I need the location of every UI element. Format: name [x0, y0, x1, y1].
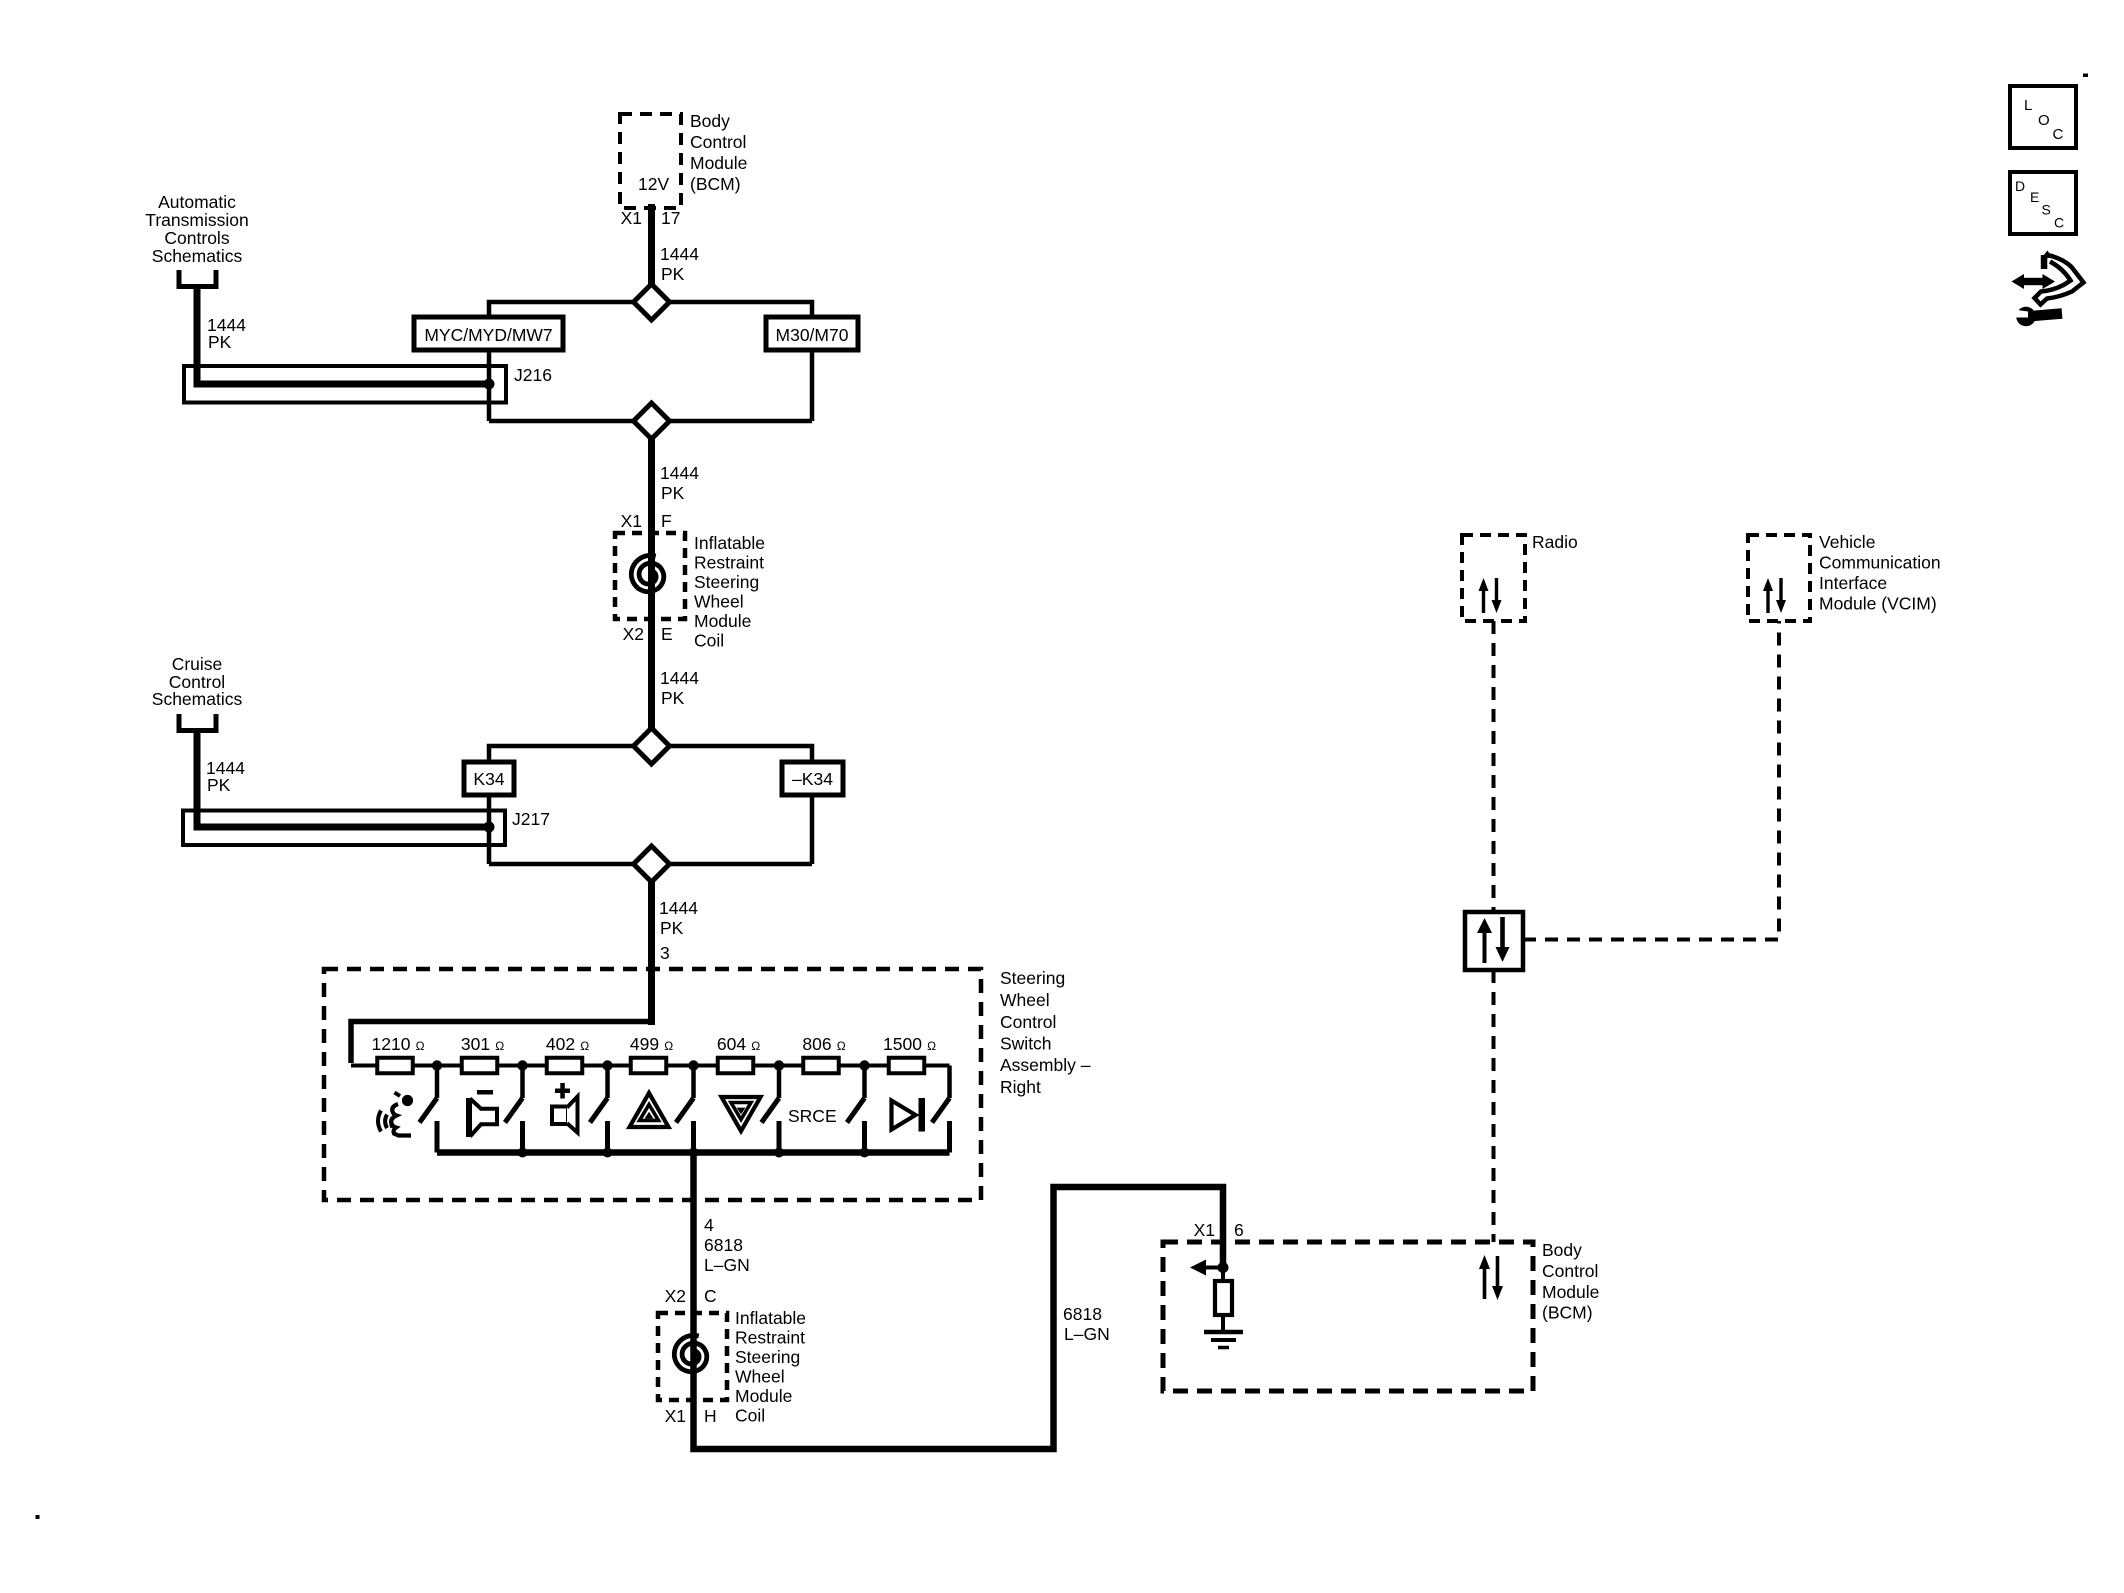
svg-text:E: E: [2030, 189, 2039, 205]
wire 1444 PK: merge diamond to switch assembly pin 3: [648, 882, 655, 1025]
svg-text:C: C: [2054, 215, 2064, 231]
svg-text:402: 402: [546, 1034, 575, 1054]
svg-text:Module: Module: [694, 611, 751, 631]
svg-text:X2: X2: [665, 1286, 686, 1306]
svg-text:Steering: Steering: [694, 572, 759, 592]
connector label X1 | 6: [1194, 1220, 1244, 1240]
label: Body Control Module (BCM): [1542, 1240, 1599, 1323]
svg-text:PK: PK: [660, 918, 684, 938]
svg-text:Control: Control: [1000, 1012, 1056, 1032]
coil spiral symbol (lower clockspring): [674, 1335, 707, 1371]
svg-text:F: F: [661, 511, 672, 531]
svg-text:Ω: Ω: [495, 1039, 504, 1053]
voice recognition switch: [420, 1066, 438, 1153]
svg-text:Wheel: Wheel: [694, 592, 744, 612]
LOC reference box: [2010, 86, 2076, 148]
svg-text:Module: Module: [690, 153, 747, 173]
svg-text:Transmission: Transmission: [145, 210, 248, 230]
svg-text:(BCM): (BCM): [690, 174, 741, 194]
serial data arrows icon inside BCM: [1479, 1255, 1503, 1300]
connector label X1 | F: [621, 511, 672, 531]
svg-text:6818: 6818: [1063, 1304, 1102, 1324]
seek down switch: [762, 1066, 780, 1153]
svg-text:Ω: Ω: [927, 1039, 936, 1053]
svg-text:Module (VCIM): Module (VCIM): [1819, 594, 1937, 614]
svg-text:17: 17: [661, 208, 680, 228]
svg-text:J216: J216: [514, 365, 552, 385]
junction dots on common bus: [518, 1148, 870, 1158]
svg-text:Automatic: Automatic: [158, 192, 236, 212]
svg-text:X1: X1: [1194, 1220, 1215, 1240]
svg-text:C: C: [704, 1286, 717, 1306]
svg-text:–K34: –K34: [792, 769, 833, 789]
coil spiral symbol (clockspring): [631, 555, 664, 591]
svg-text:Right: Right: [1000, 1077, 1041, 1097]
off-page connector bracket (ATC schematics): [179, 270, 216, 287]
wire through lower coil: [690, 1313, 697, 1400]
splice diamond (K34 top): [634, 728, 670, 764]
svg-text:1444: 1444: [660, 244, 699, 264]
wire: MYC branch down through splice pack J216 to merge diamond: [489, 350, 634, 421]
label: Automatic Transmission Controls Schematics: [145, 192, 248, 266]
svg-text:806: 806: [802, 1034, 831, 1054]
wire: splice to option K34: [489, 746, 634, 764]
svg-text:Ω: Ω: [751, 1039, 760, 1053]
svg-text:S: S: [2042, 202, 2051, 218]
svg-text:1210: 1210: [372, 1034, 411, 1054]
wire label 1444 PK: [660, 244, 699, 284]
wire: splice to option -K34: [670, 746, 813, 764]
option box M30/M70: [766, 317, 858, 350]
junction dot at BCM input: [1218, 1262, 1229, 1273]
option box -K34: [782, 762, 843, 795]
svg-text:Module: Module: [1542, 1282, 1599, 1302]
svg-text:604: 604: [717, 1034, 746, 1054]
svg-text:Radio: Radio: [1532, 532, 1578, 552]
volume down switch: [505, 1066, 523, 1153]
component box: Body Control Module (BCM) bottom, dashed: [1163, 1242, 1533, 1391]
svg-text:M30/M70: M30/M70: [776, 325, 849, 345]
component box: Inflatable Restraint Steering Wheel Module Coil (lower), dashed: [658, 1313, 727, 1400]
wire: splice to option M30/M70: [670, 302, 813, 319]
svg-text:6818: 6818: [704, 1235, 743, 1255]
svg-text:L: L: [2024, 97, 2032, 114]
svg-text:Restraint: Restraint: [694, 553, 764, 573]
volume up switch: [590, 1066, 608, 1153]
icon: volume up (speaker plus): [552, 1083, 578, 1133]
svg-text:PK: PK: [661, 264, 685, 284]
label: Steering Wheel Control Switch Assembly - Right: [1000, 968, 1091, 1097]
wire label 1444 PK: [660, 668, 699, 708]
wire 6818 L-GN: bus pin 4 down to lower coil X2-C: [690, 1153, 697, 1314]
splice diamond (top): [634, 284, 670, 320]
connector label X1 | H: [665, 1406, 717, 1426]
svg-text:Steering: Steering: [1000, 968, 1065, 988]
svg-text:PK: PK: [208, 332, 232, 352]
DESC reference box: [2010, 172, 2076, 234]
pull-down resistor inside BCM: [1215, 1268, 1232, 1332]
wire label 1444 PK: [659, 898, 698, 938]
connector label X1 | 17: [621, 208, 681, 228]
svg-text:1444: 1444: [660, 668, 699, 688]
resistor 1210 ohm: [372, 1034, 425, 1073]
component box: Vehicle Communication Interface Module (VCIM), dashed: [1748, 535, 1810, 621]
svg-text:PK: PK: [661, 688, 685, 708]
svg-text:Switch: Switch: [1000, 1034, 1052, 1054]
merge diamond (K34 bottom): [634, 846, 670, 882]
svg-text:Coil: Coil: [694, 631, 724, 651]
wire 1444 PK from Cruise schematics into splice pack J217: [197, 730, 486, 827]
svg-text:Assembly –: Assembly –: [1000, 1055, 1091, 1075]
icon: next track (play triangle with bar): [892, 1098, 926, 1132]
option box K34: [464, 762, 514, 795]
wire: pin 3 feed inside assembly to resistor ladder: [351, 1022, 652, 1064]
svg-text:Inflatable: Inflatable: [694, 533, 765, 553]
component box: Body Control Module (BCM) top, dashed outline: [620, 114, 681, 208]
svg-text:Inflatable: Inflatable: [735, 1308, 806, 1328]
svg-text:D: D: [2015, 178, 2025, 194]
svg-text:Ω: Ω: [580, 1039, 589, 1053]
stray printing dot top right: [2083, 74, 2088, 78]
svg-text:Ω: Ω: [664, 1039, 673, 1053]
svg-text:E: E: [661, 624, 673, 644]
off-page connector bracket (Cruise schematics): [179, 714, 216, 731]
svg-text:Communication: Communication: [1819, 553, 1941, 573]
label: Inflatable Restraint Steering Wheel Module Coil: [694, 533, 765, 651]
icon: seek/preset down (nested inverted triangles): [722, 1097, 761, 1131]
splice J217 junction dot: [484, 822, 495, 833]
svg-text:Steering: Steering: [735, 1347, 800, 1367]
svg-text:Interface: Interface: [1819, 573, 1887, 593]
ground symbol inside BCM: [1204, 1332, 1243, 1348]
svg-text:499: 499: [630, 1034, 659, 1054]
svg-text:MYC/MYD/MW7: MYC/MYD/MW7: [424, 325, 552, 345]
merge diamond: [634, 403, 670, 439]
wire: M30 branch down to merge diamond: [670, 350, 813, 421]
seek up switch: [676, 1066, 694, 1153]
svg-text:C: C: [2053, 126, 2064, 143]
next track switch: [932, 1066, 950, 1153]
source switch: [847, 1066, 865, 1153]
svg-text:1500: 1500: [883, 1034, 922, 1054]
icon: voice recognition (speaking head with sound waves): [378, 1093, 413, 1136]
label: Cruise Control Schematics: [152, 654, 243, 709]
svg-text:Module: Module: [735, 1386, 792, 1406]
svg-text:1444: 1444: [660, 463, 699, 483]
svg-text:X1: X1: [621, 511, 642, 531]
svg-text:Ω: Ω: [837, 1039, 846, 1053]
component box: Inflatable Restraint Steering Wheel Module Coil (upper), dashed: [615, 533, 685, 619]
svg-text:X2: X2: [623, 624, 644, 644]
wire 6818 L-GN: lower coil X1-H routed to BCM X1-6: [694, 1187, 1224, 1449]
serial data arrows icon inside gateway: [1477, 917, 1510, 963]
svg-text:3: 3: [660, 943, 670, 963]
wire: switch common bus: [437, 1149, 950, 1156]
svg-text:Wheel: Wheel: [1000, 990, 1050, 1010]
label: Inflatable Restraint Steering Wheel Module Coil: [735, 1308, 806, 1426]
serial data arrows icon inside Radio: [1479, 578, 1502, 613]
svg-text:Controls: Controls: [164, 228, 229, 248]
svg-text:Schematics: Schematics: [152, 689, 243, 709]
wire 1444 PK from BCM X1-17 down to splice diamond: [648, 204, 655, 287]
label: Body Control Module (BCM): [690, 111, 747, 194]
svg-text:301: 301: [461, 1034, 490, 1054]
svg-text:Ω: Ω: [416, 1039, 425, 1053]
wire label 1444 PK: [206, 758, 245, 795]
connector label X2 | E: [623, 624, 673, 644]
svg-text:Coil: Coil: [735, 1406, 765, 1426]
component box: Radio, dashed: [1462, 535, 1525, 621]
svg-text:Body: Body: [690, 111, 730, 131]
wire: splice to option MYC/MYD/MW7: [489, 302, 634, 319]
label: Vehicle Communication Interface Module (VCIM): [1819, 532, 1941, 614]
wire: -K34 branch down to merge diamond: [670, 795, 813, 864]
svg-text:L–GN: L–GN: [1064, 1324, 1110, 1344]
diagnostic tool icon (arrows and wrench): [2012, 251, 2084, 327]
wire 1444 PK: merge diamond to SWM coil X1-F: [648, 439, 655, 535]
svg-text:Body: Body: [1542, 1240, 1582, 1260]
wire label 1444 PK: [660, 463, 699, 503]
wire label 1444 PK: [207, 315, 246, 352]
resistor 604 ohm: [717, 1034, 760, 1073]
svg-text:Control: Control: [690, 132, 746, 152]
resistor 301 ohm: [461, 1034, 504, 1073]
wire label 6818 L-GN: [704, 1235, 750, 1275]
svg-text:Schematics: Schematics: [152, 246, 243, 266]
svg-text:Restraint: Restraint: [735, 1328, 805, 1348]
svg-text:12V: 12V: [638, 174, 669, 194]
svg-text:X1: X1: [621, 208, 642, 228]
svg-text:L–GN: L–GN: [704, 1255, 750, 1275]
splice pack J216 outline: [184, 366, 506, 403]
svg-text:SRCE: SRCE: [788, 1106, 837, 1126]
svg-text:Control: Control: [1542, 1261, 1598, 1281]
wire 1444 PK from ATC schematics into splice pack J216: [197, 286, 486, 384]
wire: resistor ladder series line: [351, 1064, 950, 1068]
icon: volume down (speaker minus): [466, 1090, 497, 1137]
signal arrow (to BCM logic): [1190, 1260, 1223, 1276]
svg-text:Vehicle: Vehicle: [1819, 532, 1875, 552]
svg-text:1444: 1444: [659, 898, 698, 918]
resistor 499 ohm: [630, 1034, 673, 1073]
serial data gateway box: [1465, 912, 1523, 970]
serial data arrows icon inside VCIM: [1763, 578, 1786, 613]
dashed serial data wire: gateway down to BCM: [1492, 970, 1496, 1242]
svg-text:6: 6: [1234, 1220, 1244, 1240]
svg-text:(BCM): (BCM): [1542, 1303, 1593, 1323]
svg-text:X1: X1: [665, 1406, 686, 1426]
stray printing dot bottom left: [36, 1515, 40, 1519]
wire through coil: [648, 533, 655, 619]
wire: K34 branch down through splice pack J217 to merge diamond: [489, 795, 634, 864]
svg-text:PK: PK: [207, 775, 231, 795]
resistor 806 ohm: [802, 1034, 845, 1073]
svg-text:Cruise: Cruise: [172, 654, 223, 674]
resistor 402 ohm: [546, 1034, 589, 1073]
junction dots on resistor ladder: [432, 1060, 870, 1070]
svg-text:K34: K34: [473, 769, 504, 789]
svg-text:H: H: [704, 1406, 717, 1426]
svg-text:4: 4: [704, 1215, 714, 1235]
option box MYC/MYD/MW7: [414, 317, 563, 350]
splice J216 junction dot: [484, 379, 495, 390]
resistor 1500 ohm: [883, 1034, 936, 1073]
dashed serial data wire: gateway to VCIM: [1523, 621, 1779, 940]
svg-text:O: O: [2038, 112, 2050, 129]
wire 1444 PK: coil X2-E down to splice diamond: [648, 619, 655, 729]
svg-text:Wheel: Wheel: [735, 1367, 785, 1387]
svg-text:PK: PK: [661, 483, 685, 503]
svg-text:J217: J217: [512, 809, 550, 829]
wire label 6818 L-GN: [1063, 1304, 1110, 1344]
connector label X2 | C: [665, 1286, 717, 1306]
splice pack J217 outline: [183, 811, 505, 846]
icon: seek/preset up (nested triangles): [630, 1093, 669, 1127]
component box: Steering Wheel Control Switch Assembly - Right, dashed: [324, 969, 981, 1200]
dashed serial data wire: Radio to gateway box: [1492, 621, 1496, 912]
